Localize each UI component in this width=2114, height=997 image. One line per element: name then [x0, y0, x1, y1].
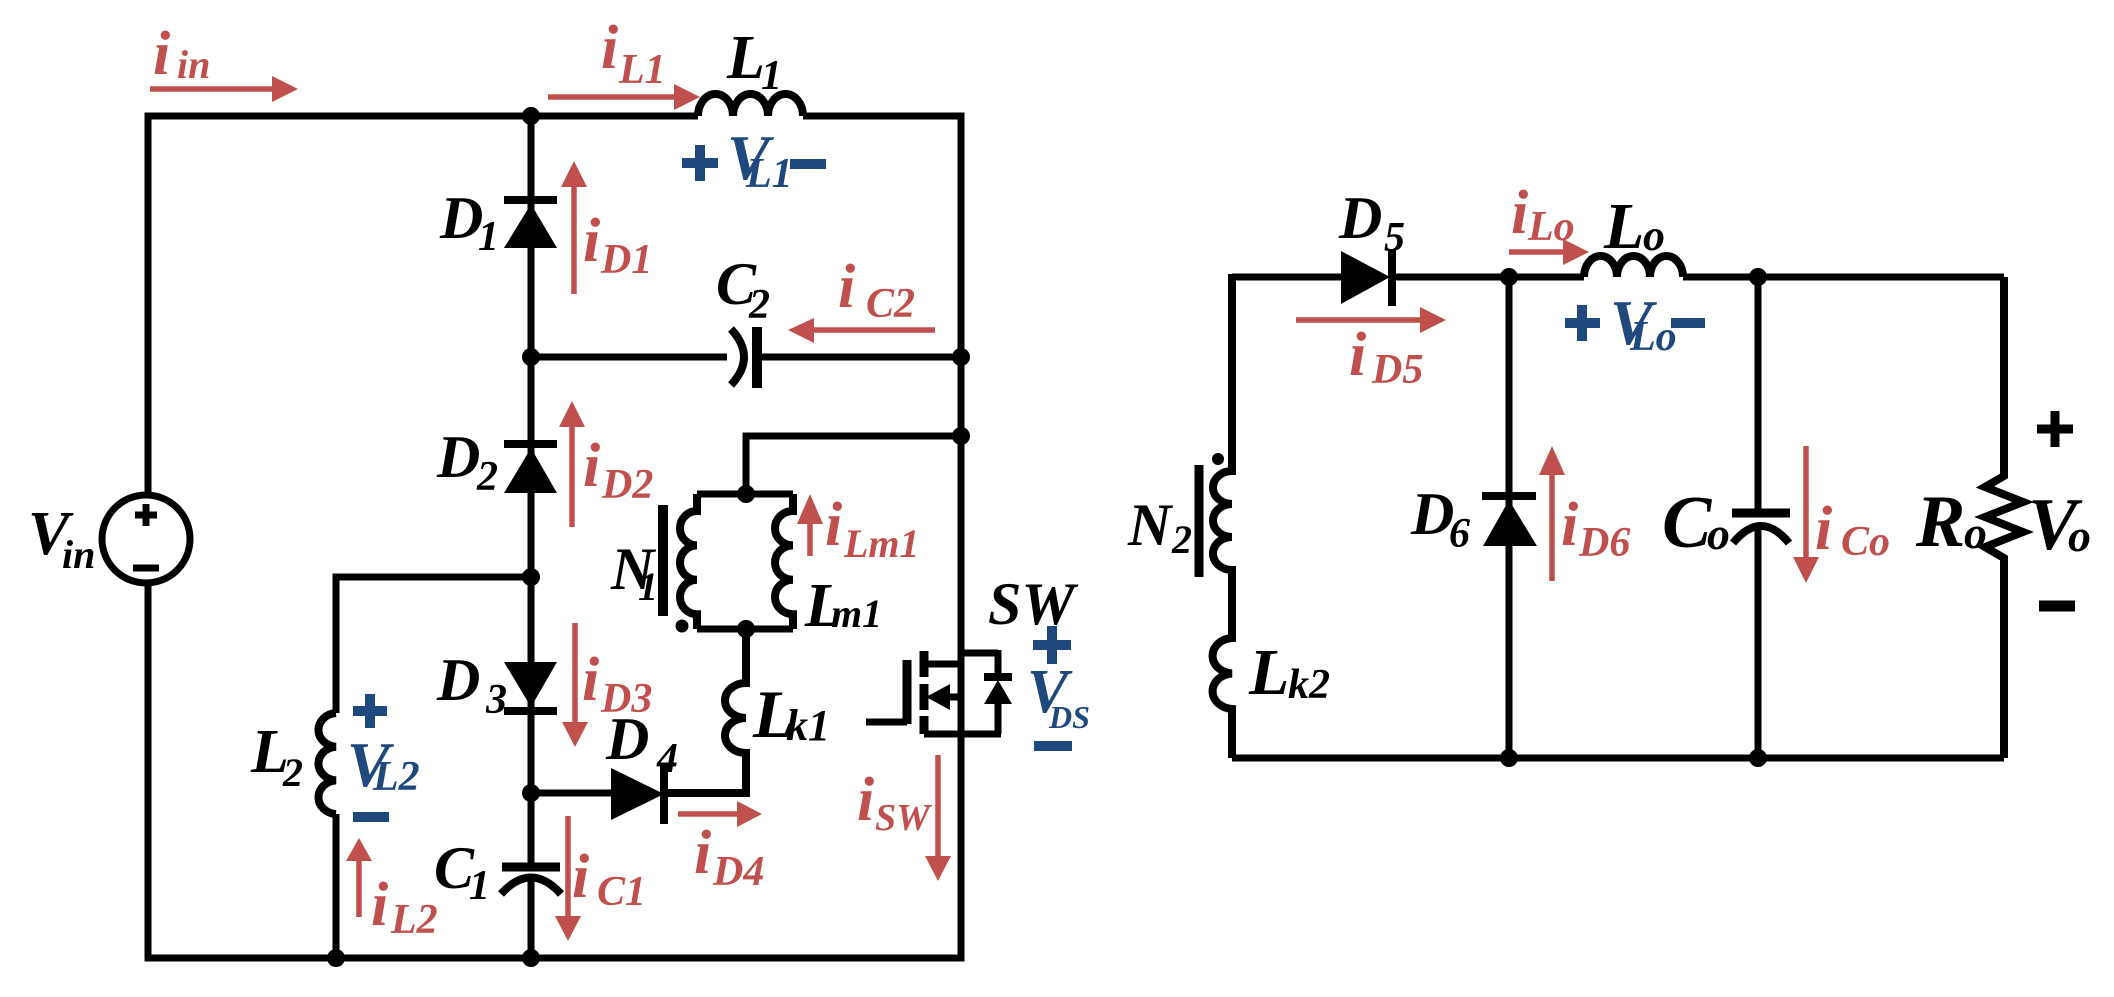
minus sign Vo	[2039, 601, 2075, 612]
arrowhead i_D5	[1420, 307, 1446, 333]
svg-text:SW: SW	[988, 571, 1078, 637]
wire D6 branch	[1506, 277, 1513, 758]
arrow i_L2	[356, 861, 362, 917]
svg-text:D: D	[436, 647, 480, 713]
mosfet SW body-diode bar	[984, 673, 1012, 681]
capacitor Co plates	[1732, 509, 1790, 518]
mosfet SW gate bar	[903, 660, 912, 724]
svg-text:D4: D4	[712, 849, 764, 895]
svg-text:2: 2	[476, 454, 498, 500]
arrowhead i_C1	[555, 916, 581, 941]
svg-text:L: L	[1603, 190, 1644, 263]
inductor Lk1 and wire to D4	[668, 629, 746, 793]
svg-text:o: o	[2068, 510, 2091, 561]
arrow i_D6	[1549, 475, 1555, 581]
wire L2 bottom	[333, 814, 340, 958]
arrow i_D3	[572, 623, 578, 722]
minus sign VLo	[1671, 318, 1705, 328]
svg-text:i: i	[694, 819, 711, 887]
arrow i_Lm1	[807, 524, 813, 556]
svg-text:4: 4	[656, 736, 678, 782]
svg-text:Lo: Lo	[1527, 204, 1575, 250]
wire Co branch	[1755, 277, 1762, 758]
junction dot transformer top	[737, 485, 755, 503]
junction dot Lo right	[1749, 268, 1767, 286]
svg-text:k1: k1	[786, 701, 830, 750]
mosfet SW bottom arm	[924, 731, 1001, 738]
svg-text:i: i	[1349, 321, 1366, 389]
wire node to transformer	[746, 436, 961, 494]
wire right circuit left rail with N2 and Lk2	[1213, 274, 1232, 758]
svg-text:Lo: Lo	[1629, 314, 1677, 360]
svg-text:1: 1	[761, 53, 782, 99]
wire outer loop left circuit	[148, 116, 961, 958]
arrow i_in	[150, 86, 272, 92]
svg-text:in: in	[177, 42, 210, 87]
minus sign VDS	[1034, 741, 1072, 751]
svg-text:SW: SW	[875, 797, 933, 839]
arrow i_C2	[814, 327, 935, 333]
svg-text:D: D	[1410, 481, 1454, 547]
svg-text:i: i	[583, 207, 600, 275]
wire L2 tap	[336, 577, 531, 713]
junction dot D4 anode	[522, 784, 540, 802]
arrowhead i_SW	[925, 856, 951, 881]
arrowhead i_D4	[737, 801, 762, 827]
mosfet SW body-diode branch wires	[961, 650, 998, 734]
diode D4	[611, 768, 664, 820]
transformer N1 core bar	[658, 505, 668, 616]
arrow i_Lo	[1509, 249, 1563, 255]
arrowhead i_Co	[1793, 557, 1819, 583]
svg-text:in: in	[62, 532, 95, 577]
diode D2	[504, 440, 557, 448]
svg-text:D5: D5	[1371, 347, 1423, 393]
diode D1	[504, 196, 557, 204]
junction dot C2 right	[952, 348, 970, 366]
svg-text:C2: C2	[866, 281, 915, 327]
svg-text:1: 1	[638, 564, 658, 609]
svg-text:m1: m1	[831, 591, 882, 636]
wire outer loop right circuit top	[1232, 274, 2004, 281]
mosfet SW channel bars	[920, 651, 929, 734]
minus sign VL2	[353, 812, 389, 822]
inductor L1	[698, 94, 803, 116]
svg-text:L2: L2	[390, 897, 438, 943]
svg-text:i: i	[1511, 179, 1528, 247]
svg-text:k2: k2	[1288, 662, 1330, 708]
junction dot D5 cathode	[1500, 268, 1518, 286]
arrow i_L1	[548, 94, 674, 100]
wire right circuit bottom	[1232, 755, 2004, 762]
wire transformer bottom bar	[697, 626, 793, 633]
svg-text:i: i	[825, 491, 842, 559]
mosfet SW source arrow	[926, 684, 950, 710]
mosfet SW gate lead	[866, 719, 907, 726]
transformer N1 winding	[680, 494, 697, 629]
plus sign VLo	[1565, 305, 1600, 341]
arrowhead i_C2	[788, 318, 814, 343]
resistor Ro and right rail	[1985, 277, 2023, 758]
svg-text:3: 3	[485, 677, 507, 723]
svg-text:C: C	[1662, 482, 1713, 564]
arrowhead i_D1	[561, 161, 587, 187]
svg-text:i: i	[572, 843, 589, 911]
minus sign VL1	[790, 159, 826, 169]
svg-text:i: i	[1561, 491, 1578, 559]
svg-text:o: o	[1707, 508, 1730, 559]
capacitor C1 plates	[502, 863, 560, 872]
arrow i_Co	[1803, 446, 1809, 557]
arrowhead i_in	[272, 76, 298, 102]
svg-text:D3: D3	[600, 676, 652, 722]
svg-text:D: D	[436, 424, 480, 490]
svg-text:i: i	[1815, 495, 1832, 563]
svg-text:D2: D2	[601, 462, 653, 508]
svg-text:D: D	[1338, 185, 1382, 251]
junction dot drain node	[952, 427, 970, 445]
inductor L2	[318, 713, 336, 814]
arrow i_D5	[1296, 317, 1420, 323]
svg-text:2: 2	[1171, 517, 1192, 562]
wire diode rail	[528, 116, 535, 958]
arrowhead i_Lo	[1563, 239, 1589, 265]
arrow i_D2	[569, 427, 575, 527]
svg-text:DS: DS	[1048, 699, 1090, 735]
svg-text:i: i	[153, 20, 170, 88]
svg-text:1: 1	[469, 863, 490, 909]
arrowhead i_L1	[674, 84, 700, 110]
inductor Lo	[1584, 256, 1683, 277]
svg-text:D: D	[439, 185, 483, 251]
svg-text:o: o	[1643, 211, 1665, 260]
arrowhead i_Lm1	[797, 494, 823, 524]
arrow i_D1	[571, 187, 577, 294]
svg-text:5: 5	[1384, 215, 1405, 261]
diode D6	[1482, 492, 1536, 500]
arrowhead i_D2	[559, 401, 585, 427]
junction dot L2 bottom	[327, 949, 345, 967]
svg-text:2: 2	[748, 282, 770, 328]
svg-text:L2: L2	[372, 754, 420, 800]
svg-text:N: N	[1127, 492, 1174, 558]
svg-text:i: i	[582, 646, 599, 714]
svg-text:L: L	[1248, 636, 1289, 709]
svg-text:1: 1	[478, 214, 499, 260]
svg-text:L1: L1	[618, 47, 666, 93]
wire D4 anode	[531, 790, 612, 797]
svg-text:2: 2	[282, 750, 303, 795]
mosfet SW source arm	[950, 694, 961, 701]
svg-text:R: R	[1915, 481, 1965, 563]
arrowhead i_L2	[346, 838, 372, 861]
wire C2 row	[531, 354, 961, 361]
mosfet SW body-diode triangle	[984, 680, 1012, 704]
phase dot N2	[1212, 453, 1224, 465]
svg-text:Lm1: Lm1	[843, 521, 920, 566]
svg-text:Co: Co	[1841, 519, 1890, 565]
junction dot top L1	[522, 107, 540, 125]
svg-text:D6: D6	[1578, 520, 1630, 566]
arrowhead i_D3	[562, 722, 588, 747]
svg-text:6: 6	[1449, 511, 1470, 557]
plus sign VDS	[1033, 626, 1071, 664]
inductor Lm1 winding	[775, 494, 793, 629]
transformer N2 core bar	[1195, 465, 1204, 577]
phase dot N1	[676, 620, 689, 633]
svg-text:i: i	[601, 14, 618, 82]
arrowhead i_D6	[1539, 446, 1565, 475]
svg-text:i: i	[371, 871, 388, 939]
diode D5	[1341, 251, 1390, 304]
junction dot Co bottom	[1749, 749, 1767, 767]
wire transformer top bar	[697, 491, 793, 498]
junction dot D6 bottom	[1500, 749, 1518, 767]
svg-text:L: L	[726, 24, 765, 92]
junction dot C2 left	[522, 348, 540, 366]
svg-text:i: i	[583, 432, 600, 500]
junction dot L2 tap	[522, 568, 540, 586]
svg-text:i: i	[857, 766, 874, 834]
plus sign Vo	[2037, 411, 2073, 447]
voltage source Vin	[102, 495, 190, 583]
capacitor C2 plates	[731, 329, 744, 385]
junction dot C1 bottom	[522, 949, 540, 967]
arrow i_D4	[678, 811, 737, 817]
diode D3	[504, 662, 557, 707]
svg-text:i: i	[838, 253, 855, 321]
svg-text:L1: L1	[745, 151, 793, 197]
arrow i_SW	[935, 755, 941, 856]
junction dot transformer bottom	[737, 620, 755, 638]
svg-text:o: o	[1964, 507, 1987, 558]
plus sign VL2	[353, 694, 387, 728]
arrow i_C1	[565, 816, 571, 916]
plus sign VL1	[682, 145, 718, 181]
svg-text:D1: D1	[600, 237, 652, 283]
mosfet SW drain arm	[924, 661, 961, 668]
svg-text:C1: C1	[597, 869, 646, 915]
